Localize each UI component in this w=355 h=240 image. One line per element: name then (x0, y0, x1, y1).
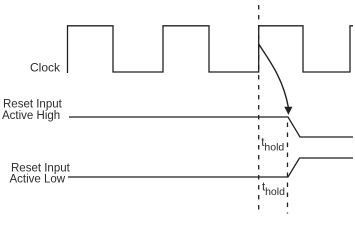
node t0 dashed reference line (clock edge) (258, 5, 260, 213)
svg-text:Reset Input: Reset Input (11, 162, 71, 174)
wire clock waveform (68, 26, 354, 73)
svg-text:Active High: Active High (2, 110, 60, 122)
wire reset input active high waveform (69, 117, 353, 137)
label Reset Input Active High (2, 99, 63, 122)
arrow from clock edge to reset transition (259, 44, 293, 115)
svg-text:Reset Input: Reset Input (3, 99, 63, 111)
label t_hold (active high) (261, 137, 284, 154)
node t1 dashed reference line (end of hold time) (287, 123, 289, 214)
label t_hold (active low) (262, 182, 285, 199)
svg-text:hold: hold (265, 186, 285, 198)
label Clock (30, 60, 61, 74)
svg-text:Active Low: Active Low (10, 174, 66, 186)
svg-text:Clock: Clock (30, 60, 61, 74)
wire reset input active low waveform (68, 158, 353, 177)
label Reset Input Active Low (10, 162, 71, 185)
svg-text:hold: hold (264, 141, 284, 153)
